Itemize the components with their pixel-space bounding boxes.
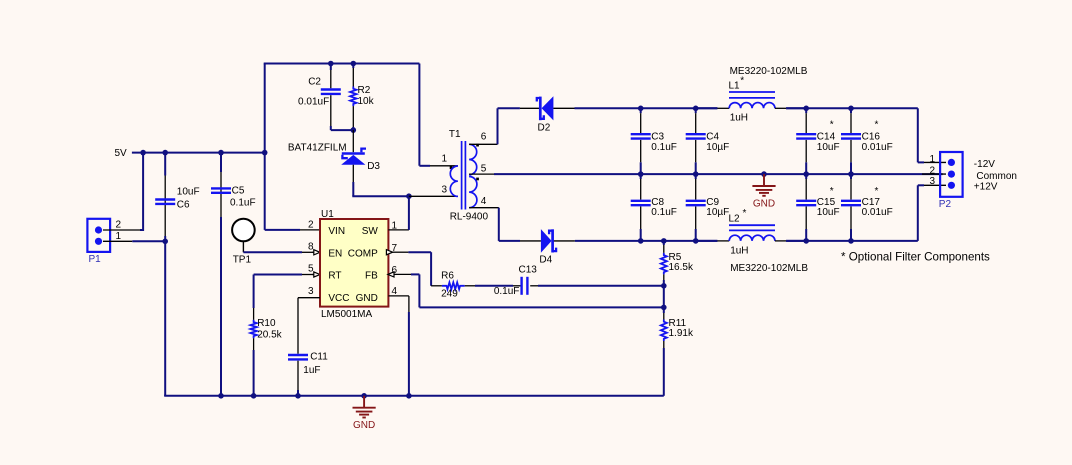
svg-text:* Optional Filter Components: * Optional Filter Components (841, 250, 990, 263)
junction top-C3 (638, 106, 644, 112)
svg-text:BAT41ZFILM: BAT41ZFILM (288, 142, 347, 153)
svg-text:C6: C6 (177, 199, 190, 210)
diode D2 (520, 107, 539, 109)
svg-text:*: * (830, 120, 834, 131)
svg-text:R6: R6 (441, 271, 454, 282)
svg-text:RL-9400: RL-9400 (450, 212, 489, 223)
pin 5 arrow of U1 (312, 274, 320, 276)
svg-text:R5: R5 (669, 252, 682, 263)
wire SW riser (408, 196, 410, 230)
svg-text:L2: L2 (729, 214, 741, 225)
svg-text:R10: R10 (257, 318, 276, 329)
junction gnd-C5 (218, 393, 224, 399)
wire P1 pin1 to C6 column (132, 240, 165, 242)
svg-text:T1: T1 (449, 129, 461, 140)
resistor R11 (663, 286, 665, 308)
junction gnd-U1pin4 (406, 393, 412, 399)
wire common mid rail (494, 173, 943, 175)
junction mid-C4C9 (693, 171, 699, 177)
pin 3 of T1 (409, 195, 458, 197)
svg-text:3: 3 (929, 176, 935, 187)
pin 3 of P2 (924, 184, 946, 186)
diode D3 BAT41ZFILM (352, 130, 354, 152)
svg-text:D4: D4 (539, 254, 552, 265)
wire T1 pin6 to D2 (497, 108, 499, 144)
svg-text:6: 6 (481, 132, 487, 143)
svg-text:D3: D3 (367, 161, 380, 172)
wire P2 pin3 riser (917, 185, 919, 241)
wire EN net (243, 251, 302, 253)
svg-text:1uF: 1uF (303, 365, 320, 376)
wire D3 anode to SW node (352, 195, 409, 197)
ground symbol bottom (363, 396, 365, 407)
junction 5V-VIN riser (262, 150, 268, 156)
capacitor C6 (155, 198, 175, 200)
capacitor C15 (805, 174, 807, 179)
capacitor C8 (640, 174, 642, 179)
junction 5V-C5 (218, 150, 224, 156)
phase dot secondary mid (476, 178, 479, 181)
svg-text:8: 8 (308, 242, 314, 253)
wire P2 pin1 riser (917, 108, 919, 162)
svg-text:4: 4 (481, 196, 487, 207)
pin 1 of T1 (419, 165, 430, 167)
junction top-C16 (848, 106, 854, 112)
transformer T1 primary winding (450, 166, 458, 196)
svg-text:2: 2 (929, 165, 935, 176)
junction 5V-P1pin2 (140, 150, 146, 156)
svg-text:0.1uF: 0.1uF (651, 207, 677, 218)
svg-text:10µF: 10µF (706, 142, 729, 153)
junction bot-R5 (661, 238, 667, 244)
junction mid-C14C15 (803, 171, 809, 177)
transformer T1 core (461, 141, 463, 210)
capacitor C14 (805, 108, 807, 113)
capacitor C16 (850, 108, 852, 113)
pin 6 of T1 (469, 143, 497, 145)
wire COMP net (408, 251, 431, 253)
junction top-C4 (693, 106, 699, 112)
svg-text:3: 3 (441, 185, 447, 196)
svg-text:ME3220-102MLB: ME3220-102MLB (730, 263, 808, 274)
resistor R5 (663, 241, 665, 245)
svg-text:SW: SW (362, 226, 379, 237)
svg-text:*: * (830, 186, 834, 197)
junction bot-C15 (803, 238, 809, 244)
svg-text:10uF: 10uF (817, 142, 840, 153)
svg-text:1uH: 1uH (730, 245, 748, 256)
op-amp U1 LM5001MA body (320, 219, 388, 307)
wire C5 column (220, 153, 222, 172)
svg-text:GND: GND (356, 293, 378, 304)
capacitor C9 (695, 174, 697, 179)
svg-text:10uF: 10uF (177, 186, 200, 197)
svg-text:D2: D2 (538, 123, 551, 134)
svg-text:U1: U1 (321, 209, 334, 220)
wire ground rail (164, 395, 166, 396)
svg-text:3: 3 (308, 286, 314, 297)
capacitor C2 (330, 64, 332, 71)
wire +12V bottom rail (575, 240, 718, 242)
junction C2 top (328, 61, 334, 67)
svg-text:C2: C2 (308, 76, 321, 87)
capacitor C5 (211, 187, 231, 189)
resistor R10 (253, 308, 255, 320)
pin 4 of T1 (469, 207, 499, 209)
inductor L1 (696, 107, 718, 109)
svg-text:10uF: 10uF (817, 207, 840, 218)
junction SW-T1pin3 (406, 193, 412, 199)
capacitor C3 (640, 108, 642, 113)
wire RT net (253, 275, 255, 309)
svg-text:1: 1 (929, 154, 935, 165)
svg-text:GND: GND (353, 420, 375, 431)
junction gnd-R10 (251, 393, 257, 399)
svg-text:16.5k: 16.5k (669, 262, 694, 273)
capacitor C4 (695, 108, 697, 113)
phase dot secondary top (476, 144, 479, 147)
svg-text:EN: EN (328, 248, 342, 259)
svg-text:0.01uF: 0.01uF (298, 97, 329, 108)
svg-text:1: 1 (441, 153, 447, 164)
svg-text:10µF: 10µF (706, 207, 729, 218)
svg-text:*: * (875, 120, 879, 131)
svg-text:LM5001MA: LM5001MA (321, 309, 372, 320)
wire T1 pin4 to D4 (498, 208, 500, 241)
svg-text:P2: P2 (939, 199, 952, 210)
transformer T1 secondary winding lower (469, 177, 477, 208)
svg-text:-12V: -12V (974, 159, 995, 170)
svg-text:5V: 5V (115, 148, 128, 159)
pin 5 of T1 (469, 173, 494, 175)
junction bot-C8 (638, 238, 644, 244)
capacitor C11 (297, 298, 299, 354)
svg-text:C11: C11 (310, 351, 328, 362)
junction R2 top (351, 61, 357, 67)
svg-text:1.91k: 1.91k (669, 328, 694, 339)
ground symbol output (763, 174, 765, 185)
wire C6/ground column (164, 153, 166, 176)
wire VIN net (265, 229, 300, 231)
pin 8 arrow of U1 (312, 251, 320, 253)
svg-text:*: * (875, 186, 879, 197)
junction FB-R11 (661, 305, 667, 311)
wire T1 pin1 riser (418, 64, 420, 166)
wire R11 to ground rail (663, 348, 665, 396)
wire C2 bottom (331, 129, 354, 131)
svg-text:5: 5 (481, 164, 487, 175)
svg-text:C13: C13 (519, 265, 538, 276)
svg-text:P1: P1 (89, 254, 102, 265)
diode D4 (520, 240, 541, 242)
junction gnd-symbol (361, 393, 367, 399)
svg-text:1uH: 1uH (730, 113, 748, 124)
svg-text:GND: GND (753, 198, 775, 209)
capacitor C17 (850, 174, 852, 179)
junction mid-C3C8 (638, 171, 644, 177)
transformer T1 secondary winding upper (469, 144, 477, 174)
svg-text:2: 2 (116, 219, 122, 230)
svg-text:Common: Common (976, 171, 1017, 182)
junction bot-C17 (848, 238, 854, 244)
svg-text:0.01uF: 0.01uF (862, 142, 893, 153)
wire FB net (411, 273, 419, 275)
svg-text:0.01uF: 0.01uF (862, 207, 893, 218)
svg-text:VCC: VCC (328, 293, 349, 304)
svg-text:10k: 10k (358, 96, 375, 107)
junction mid-gnd (761, 171, 767, 177)
svg-text:1: 1 (116, 231, 122, 242)
junction 5V-C6 (162, 150, 168, 156)
svg-text:20.5k: 20.5k (257, 329, 282, 340)
svg-text:2: 2 (308, 219, 314, 230)
svg-text:TP1: TP1 (233, 254, 252, 265)
resistor R2 (352, 64, 354, 69)
svg-text:RT: RT (328, 271, 341, 282)
wire P1 pin2 to 5V (140, 229, 143, 231)
svg-text:COMP: COMP (348, 248, 378, 259)
capacitor C13 (513, 285, 521, 287)
svg-text:*: * (740, 75, 744, 86)
svg-text:L1: L1 (729, 81, 741, 92)
junction R2-C2 bottom (351, 127, 357, 133)
svg-text:FB: FB (365, 271, 378, 282)
svg-text:+12V: +12V (974, 182, 998, 193)
svg-text:0.1uF: 0.1uF (651, 142, 677, 153)
svg-text:*: * (743, 208, 747, 219)
wire GND pin riser (408, 296, 410, 312)
junction mid-C16C17 (848, 171, 854, 177)
junction top-C14 (803, 106, 809, 112)
connector P1 (87, 219, 110, 252)
svg-text:0.1uF: 0.1uF (230, 198, 256, 209)
svg-text:VIN: VIN (328, 226, 345, 237)
svg-text:249: 249 (441, 289, 458, 300)
junction R5-FB node (661, 283, 667, 289)
resistor R6 (431, 285, 442, 287)
junction gnd-C11 (295, 393, 301, 399)
wire -12V top rail (575, 107, 718, 109)
junction bot-C9 (693, 238, 699, 244)
svg-text:5: 5 (308, 264, 314, 275)
inductor L2 (696, 240, 718, 242)
svg-text:0.1uF: 0.1uF (494, 286, 520, 297)
svg-text:C5: C5 (232, 185, 245, 196)
svg-text:R2: R2 (358, 85, 371, 96)
wire VIN riser (264, 153, 266, 230)
connector P2 (940, 152, 963, 197)
wire top VIN rail (264, 64, 266, 153)
phase dot primary (450, 166, 453, 169)
wire TP1 stem (242, 242, 244, 253)
wire R6 to C13 (475, 285, 513, 287)
junction C6-P1pin1 (162, 239, 168, 245)
test point TP1 (232, 219, 255, 242)
pin 2 of P2 (922, 173, 946, 175)
wire 5V rail (132, 152, 265, 154)
wire C13 to divider (538, 285, 664, 287)
pin 1 of P2 (924, 161, 946, 163)
